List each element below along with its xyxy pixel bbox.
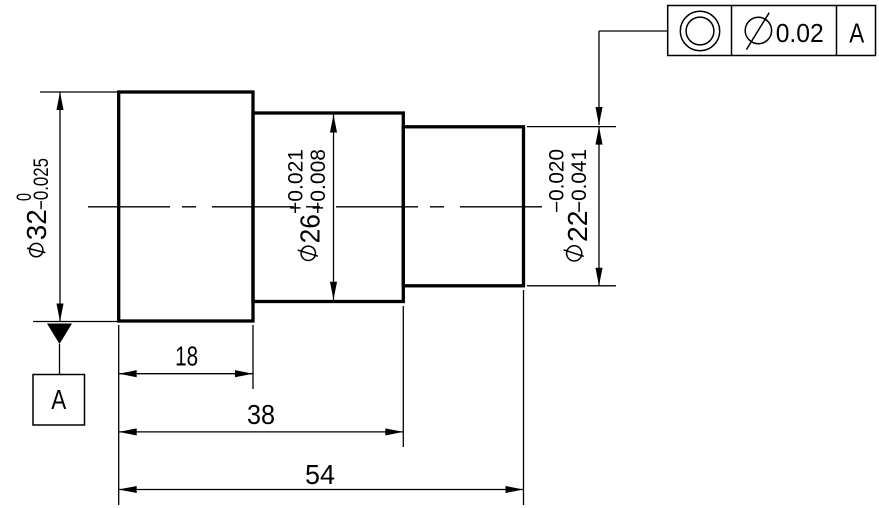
- feature control frame divider 1: [731, 6, 733, 56]
- datum leader line: [59, 344, 61, 375]
- datum feature triangle: [47, 324, 72, 345]
- svg-text:22: 22: [562, 211, 593, 243]
- leader arrow down at extension line: [595, 107, 602, 125]
- dimension 54: line: [119, 489, 524, 491]
- centerline (dash-dot axis): [88, 206, 542, 208]
- dimension phi32: arrow up: [56, 92, 63, 110]
- svg-text:26: 26: [295, 214, 326, 243]
- svg-text:32: 32: [21, 209, 52, 240]
- extension line below part at x=118.7: [118, 325, 120, 505]
- concentricity symbol outer circle: [680, 11, 719, 50]
- dimension phi26: dimension line: [333, 115, 335, 300]
- dimension 18: line: [119, 373, 253, 375]
- svg-text:A: A: [51, 384, 66, 415]
- svg-text:+0.021: +0.021: [285, 149, 308, 214]
- dimension phi22: arrow down: [595, 268, 602, 286]
- concentricity symbol inner circle: [686, 17, 714, 45]
- dimension 38: line: [119, 431, 404, 433]
- dimension phi22: dimension line: [598, 127, 600, 286]
- tolerance diameter symbol slash: [746, 13, 769, 50]
- part outline: small cylinder phi22: [403, 127, 523, 286]
- svg-text:−0.020: −0.020: [546, 149, 569, 213]
- svg-text:18: 18: [175, 341, 198, 372]
- dimension phi26: diameter symbol: [301, 246, 315, 260]
- svg-text:54: 54: [305, 459, 335, 490]
- svg-text:38: 38: [247, 399, 275, 430]
- part outline: middle cylinder phi26: [253, 113, 403, 302]
- dimension phi22: diameter symbol: [567, 246, 582, 261]
- leader to feature control frame: vertical: [598, 31, 600, 125]
- datum box: [33, 375, 85, 426]
- part outline: large cylinder phi32: [119, 92, 253, 321]
- dimension 38: arrow left: [119, 428, 137, 435]
- extension line below part at x=253: [252, 325, 254, 389]
- svg-text:−0.041: −0.041: [568, 149, 591, 213]
- dimension phi32: dimension line: [59, 92, 61, 322]
- feature control frame box: [668, 6, 876, 56]
- dimension phi26: arrow up: [330, 115, 337, 133]
- dimension 54: arrow left: [119, 486, 137, 493]
- dimension phi26: arrow down: [330, 282, 337, 300]
- dimension phi32: extension line bottom: [33, 321, 117, 323]
- svg-text:A: A: [849, 18, 864, 49]
- dimension phi22: extension line bottom: [527, 285, 616, 287]
- svg-text:−0.025: −0.025: [30, 158, 53, 210]
- extension line below part at x=523.5: [523, 290, 525, 505]
- dimension phi22: arrow up: [595, 127, 602, 145]
- dimension phi22: extension line top: [527, 126, 616, 128]
- dimension phi32: arrow down: [56, 304, 63, 322]
- leader to feature control frame: horizontal: [599, 30, 668, 32]
- dimension phi32: extension line top: [40, 91, 117, 93]
- dimension 54: arrow right: [506, 486, 524, 493]
- dimension phi32: diameter symbol: [30, 243, 43, 256]
- dimension 18: arrow left: [119, 370, 137, 377]
- svg-text:0.02: 0.02: [776, 18, 824, 48]
- svg-text:+0.008: +0.008: [307, 149, 330, 214]
- dimension 18: arrow right: [235, 370, 253, 377]
- extension line below part at x=403.3: [402, 306, 404, 447]
- feature control frame divider 2: [836, 6, 838, 56]
- tolerance diameter symbol circle: [745, 17, 771, 43]
- dimension 38: arrow right: [385, 428, 403, 435]
